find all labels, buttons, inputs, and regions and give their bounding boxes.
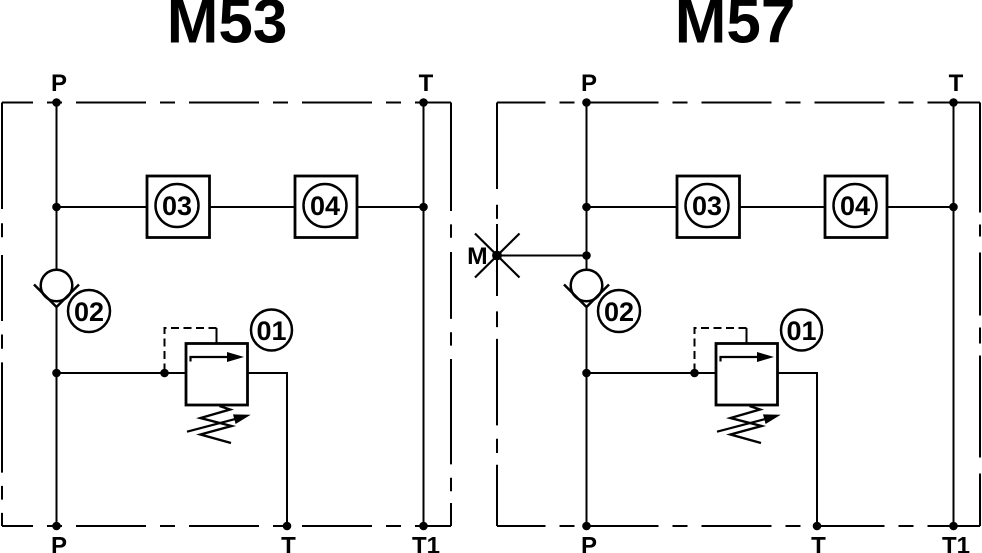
svg-text:02: 02 — [604, 297, 634, 327]
check valve 02 (M57) — [564, 270, 609, 307]
enclosure M57 left boundary lower (dashed) — [496, 296, 498, 526]
wire: P to relief valve inlet (M53) — [57, 372, 187, 374]
svg-text:P: P — [581, 533, 597, 553]
svg-text:T: T — [419, 70, 434, 97]
svg-text:T: T — [281, 533, 296, 553]
junction M branch on P line (M57) — [582, 251, 591, 260]
svg-text:M53: M53 — [167, 0, 288, 56]
svg-text:T: T — [811, 533, 826, 553]
enclosure M57 left boundary upper (dashed) — [496, 103, 498, 225]
wire: P to relief valve inlet (M57) — [587, 372, 717, 374]
svg-text:02: 02 — [74, 297, 104, 327]
measuring port M symbol (M57) — [475, 234, 520, 278]
component 03 plug (M53) — [147, 176, 210, 238]
label 01 balloon (M57) — [781, 310, 822, 351]
enclosure M57 right boundary (dashed) — [979, 103, 981, 527]
junction P top (M57) — [582, 98, 591, 107]
junction pilot tap (M53) — [160, 369, 169, 378]
wire: T line (M53) — [423, 103, 425, 527]
junction P relief branch (M53) — [52, 369, 61, 378]
svg-text:03: 03 — [692, 191, 722, 221]
component 04 plug (M53) — [295, 176, 357, 238]
wire: M port to P line (M57) — [497, 255, 587, 257]
junction T bottom (M57) — [813, 522, 822, 531]
wire: row 04 to T (M57) — [887, 206, 954, 208]
pilot line dashed (M57) — [746, 328, 748, 344]
enclosure M57 bottom boundary (dashed) — [497, 525, 980, 527]
enclosure M53 bottom boundary (dashed) — [2, 525, 451, 527]
enclosure M53 left boundary (dashed) — [1, 103, 3, 527]
enclosure M53 right boundary (dashed) — [450, 103, 452, 527]
junction M port center (M57) — [492, 251, 502, 261]
label 02 balloon (M53) — [68, 290, 110, 332]
junction P bottom (M53) — [52, 522, 61, 531]
wire: row P to 03 (M53) — [57, 206, 148, 208]
junction T1 bottom (M53) — [419, 522, 428, 531]
wire: P line lower segment (M53) — [56, 307, 58, 526]
junction P top (M53) — [52, 98, 61, 107]
svg-text:01: 01 — [786, 316, 816, 346]
relief valve 01 (M57) — [716, 344, 781, 444]
junction T top (M53) — [419, 98, 428, 107]
label 01 balloon (M53) — [251, 310, 292, 351]
junction P bottom (M57) — [582, 522, 591, 531]
junction T row (M53) — [419, 203, 428, 212]
svg-text:T1: T1 — [412, 533, 440, 553]
enclosure M57 top boundary (dashed) — [497, 102, 980, 104]
relief valve 01 (M53) — [186, 344, 251, 444]
svg-text:T: T — [949, 70, 964, 97]
svg-text:M: M — [467, 243, 488, 270]
wire: row P to 03 (M57) — [587, 206, 678, 208]
junction pilot tap (M57) — [690, 369, 699, 378]
wire: P line upper segment (M57) — [586, 103, 588, 270]
svg-text:P: P — [581, 70, 597, 97]
wire: row 04 to T (M53) — [357, 206, 424, 208]
junction T top (M57) — [949, 98, 958, 107]
wire: relief valve outlet to T (M57) — [778, 373, 818, 526]
pilot line dashed (M53) — [216, 328, 218, 344]
enclosure M53 top boundary (dashed) — [2, 102, 451, 104]
wire: P line upper segment (M53) — [56, 103, 58, 270]
svg-text:P: P — [51, 533, 67, 553]
junction T row (M57) — [949, 203, 958, 212]
junction T1 bottom (M57) — [949, 522, 958, 531]
wire: row 03 to 04 (M57) — [740, 206, 826, 208]
svg-text:T1: T1 — [942, 533, 970, 553]
label 02 balloon (M57) — [598, 290, 640, 332]
wire: T line (M57) — [953, 103, 955, 527]
wire: relief valve outlet to T (M53) — [248, 373, 288, 526]
svg-text:04: 04 — [840, 191, 870, 221]
component 04 plug (M57) — [825, 176, 887, 238]
enclosure M57 left boundary at port M (solid) — [496, 224, 498, 296]
svg-text:04: 04 — [310, 191, 340, 221]
svg-text:01: 01 — [256, 316, 286, 346]
junction P row (M57) — [582, 203, 591, 212]
svg-text:P: P — [51, 70, 67, 97]
junction T bottom (M53) — [283, 522, 292, 531]
junction P relief branch (M57) — [582, 369, 591, 378]
junction P row (M53) — [52, 203, 61, 212]
wire: P line lower segment (M57) — [586, 307, 588, 526]
wire: row 03 to 04 (M53) — [210, 206, 296, 208]
svg-text:03: 03 — [162, 191, 192, 221]
svg-text:M57: M57 — [675, 0, 796, 56]
component 03 plug (M57) — [677, 176, 740, 238]
check valve 02 (M53) — [34, 270, 79, 307]
